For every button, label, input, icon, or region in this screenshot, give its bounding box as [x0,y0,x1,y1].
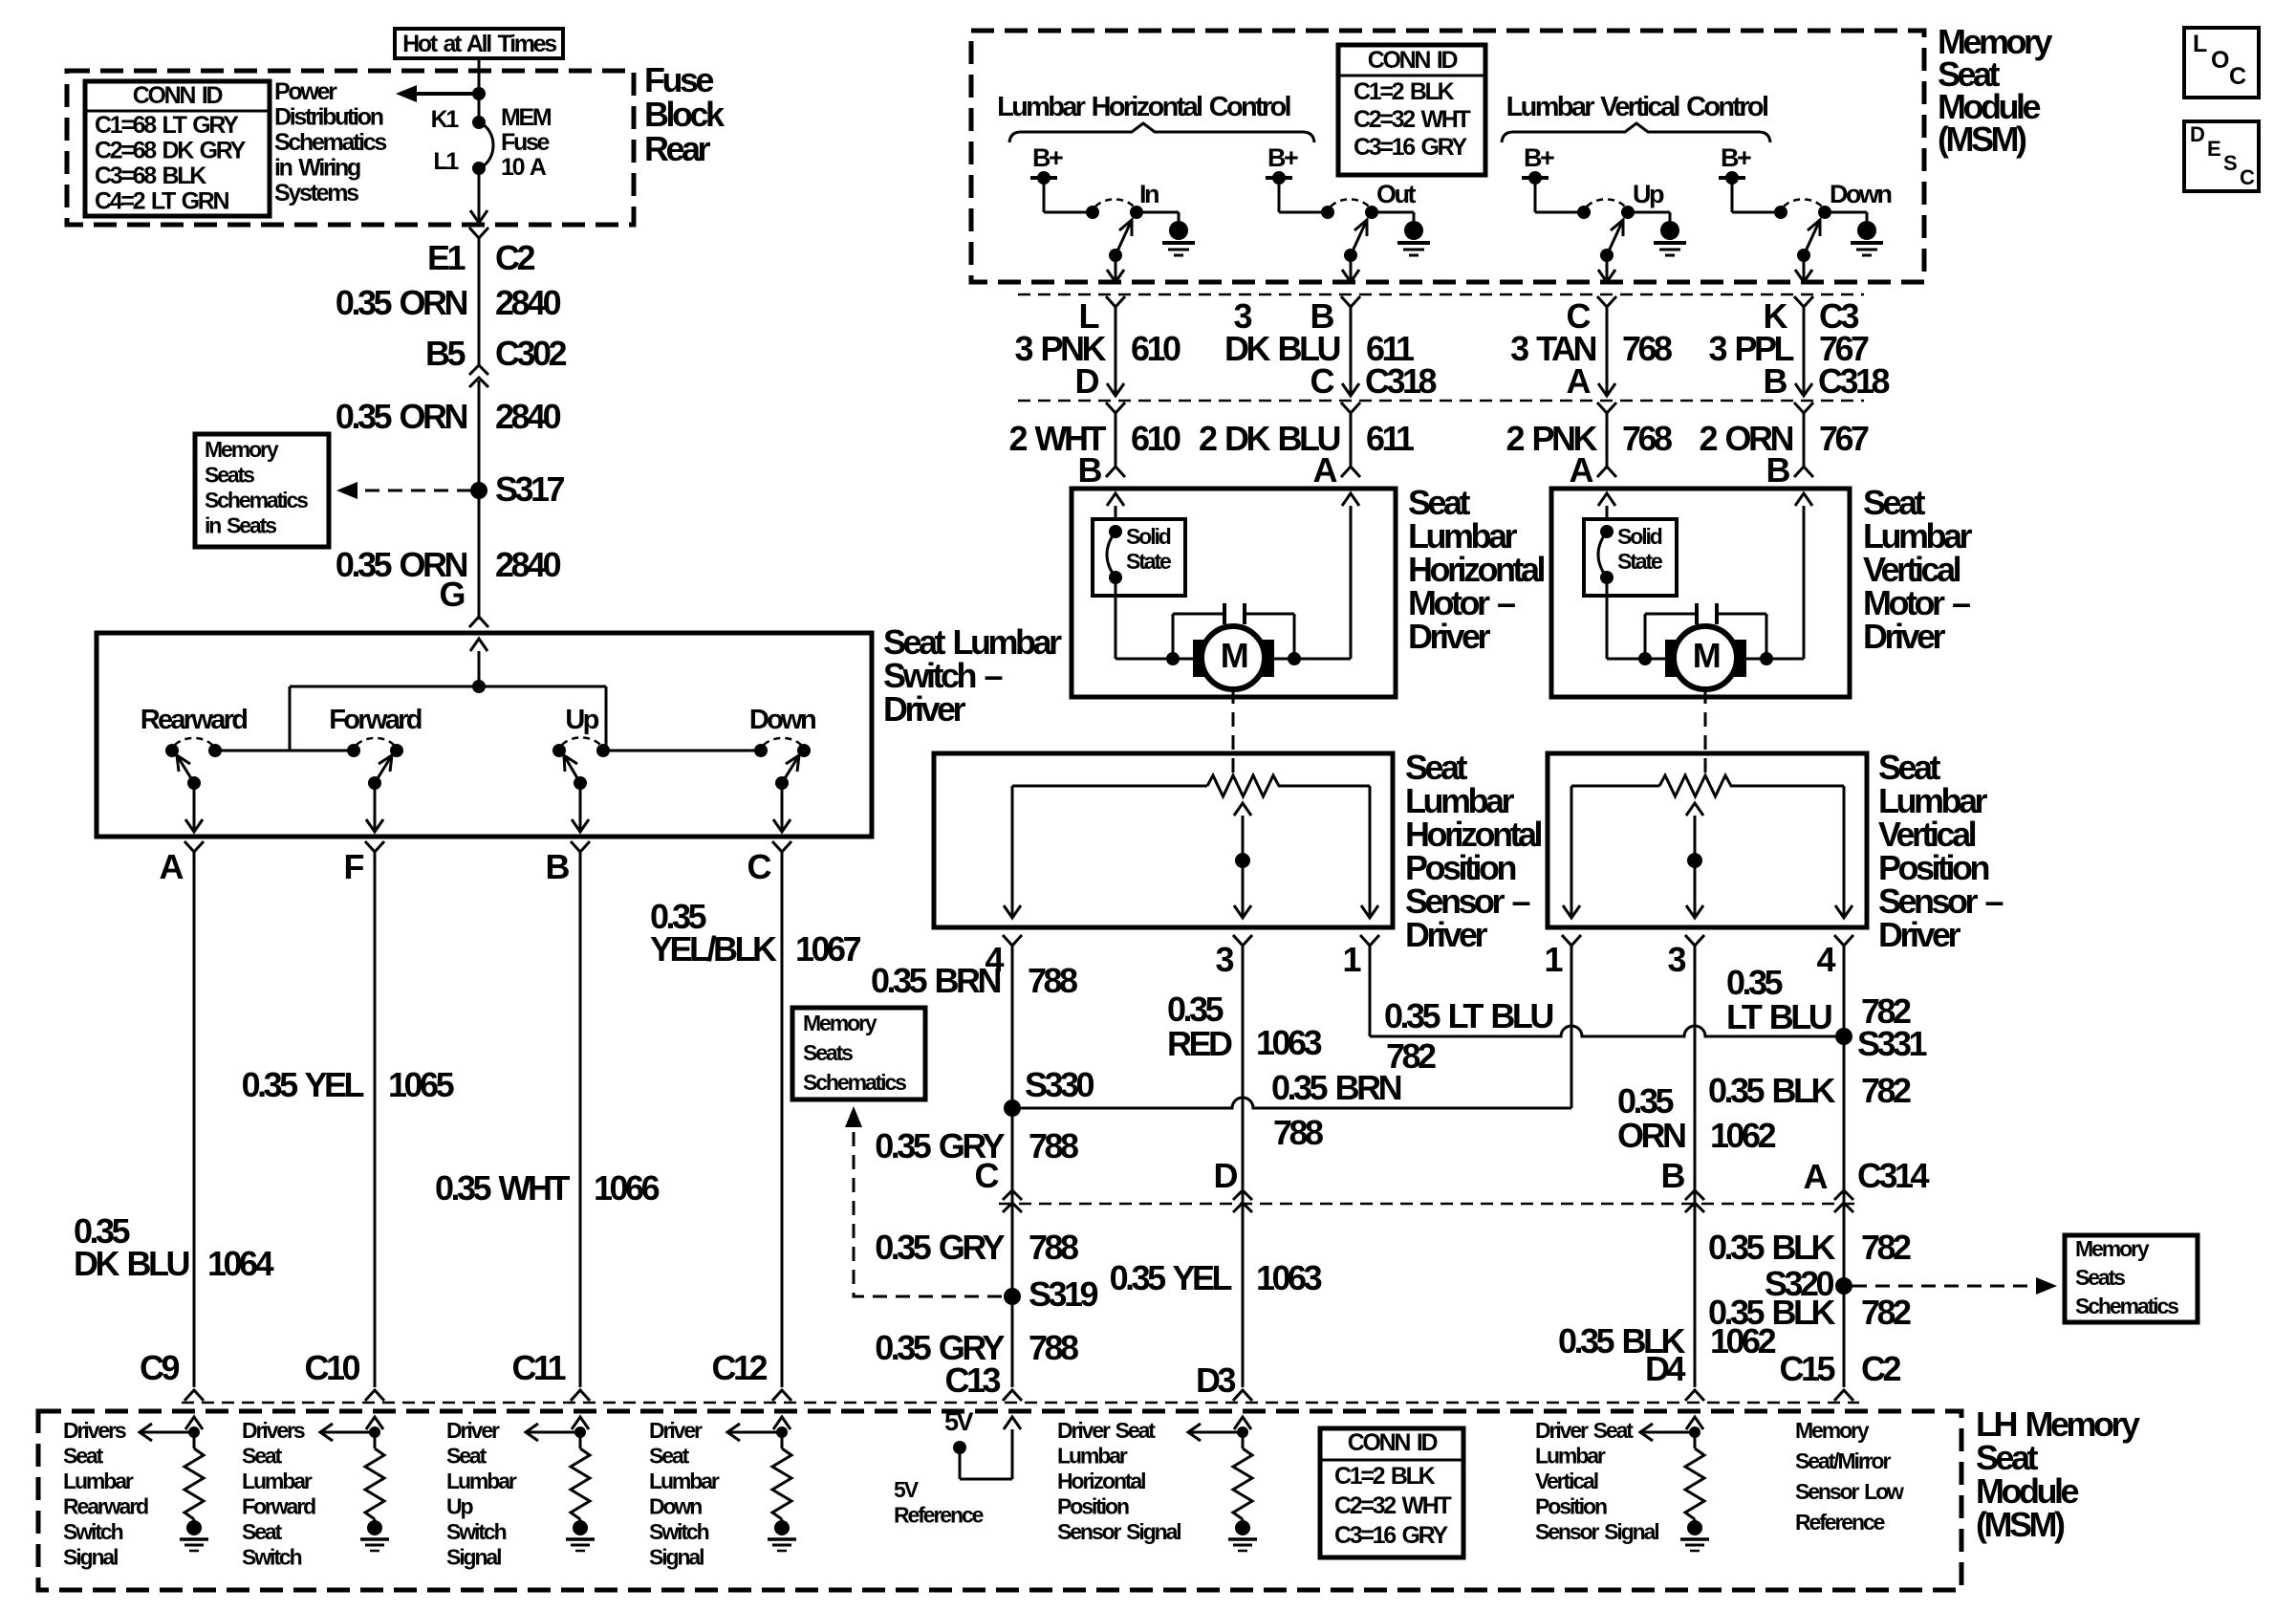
wire: rail to Up/Down contacts [603,750,761,752]
svg-text:Forward: Forward [242,1494,315,1519]
connector line C318 [1018,400,1864,403]
svg-text:C15: C15 [1779,1349,1835,1388]
svg-text:C3: C3 [1819,296,1858,336]
svg-text:F: F [344,847,364,886]
switch: Lumbar Down switch [1732,211,1781,214]
svg-text:5V: 5V [894,1477,920,1502]
splice S319 [1004,1288,1021,1305]
wire: C13 sensor supply (BRN/GRY 788) [1011,946,1014,1387]
svg-text:Sensor Signal: Sensor Signal [1535,1519,1658,1544]
svg-text:610: 610 [1131,329,1180,368]
splice S331 [1835,1028,1852,1045]
svg-text:B+: B+ [1721,143,1751,172]
wire segment 2 PNK 768 [1597,403,1616,413]
svg-text:CONN ID: CONN ID [1348,1429,1438,1456]
wire: arrow to Power Distribution Schematics [417,92,479,96]
svg-text:CONN ID: CONN ID [133,82,223,109]
connector pin F below switch box [365,841,384,852]
svg-text:S331: S331 [1857,1024,1928,1063]
svg-text:610: 610 [1131,419,1180,458]
svg-text:782: 782 [1861,1228,1911,1267]
svg-text:Seat: Seat [63,1444,104,1469]
svg-text:ORN: ORN [1617,1116,1685,1155]
wire: YEL/BLK 1067 [781,852,784,1387]
svg-text:Signal: Signal [649,1545,704,1570]
ground (Lumbar Up switch) [1628,211,1670,214]
wire: right feed [1795,493,1812,506]
svg-text:G: G [439,575,464,614]
svg-text:0.35 GRY: 0.35 GRY [875,1228,1005,1267]
svg-text:A: A [1313,450,1338,490]
svg-text:C1=2 BLK: C1=2 BLK [1334,1463,1436,1490]
sensor pin 4 [1834,935,1853,946]
svg-text:C: C [1310,361,1335,401]
motor M [1116,658,1351,661]
svg-text:DK BLU: DK BLU [74,1244,188,1283]
svg-text:0.35 YEL: 0.35 YEL [242,1065,364,1104]
svg-text:D: D [1075,361,1099,401]
svg-text:A: A [1804,1157,1829,1196]
svg-text:788: 788 [1273,1113,1323,1152]
svg-text:0.35: 0.35 [1167,990,1224,1029]
svg-text:Vertical: Vertical [1535,1469,1598,1493]
svg-text:C3=68 BLK: C3=68 BLK [95,163,206,189]
wire: left feed [1107,493,1124,506]
svg-text:0.35 WHT: 0.35 WHT [435,1168,571,1208]
node: switch feed junction [472,680,486,693]
svg-text:3: 3 [1215,940,1233,979]
connector pin C below switch box [772,841,791,852]
switch arm (Lumbar In switch) [1109,249,1122,262]
switch: Forward switch [347,744,360,757]
svg-text:10 A: 10 A [501,154,547,181]
svg-text:State: State [1617,549,1662,574]
connector pin B below switch box [571,841,590,852]
splice S317 [470,482,487,499]
box: Seat Lumbar Vertical Position Sensor - Driver [1548,753,1867,927]
dashed link motor to sensor [1704,689,1707,773]
svg-text:E: E [2207,137,2220,161]
wire segment 2 WHT 610 [1106,403,1125,413]
svg-text:768: 768 [1622,329,1672,368]
svg-text:B+: B+ [1524,143,1554,172]
signal input: arrow, resistor, ground [1234,1417,1251,1429]
box: Memory Seats Schematics (middle) [792,1008,925,1099]
signal input: arrow, resistor, ground [366,1417,383,1429]
svg-text:0.35 BRN: 0.35 BRN [871,961,1001,1000]
svg-text:Lumbar: Lumbar [649,1469,720,1493]
svg-text:Distribution: Distribution [274,104,383,131]
svg-text:B5: B5 [425,334,466,373]
box: Seat Lumbar Horizontal Motor - Driver [1072,489,1396,697]
svg-text:B: B [1766,450,1790,490]
svg-text:Schematics: Schematics [274,129,386,156]
wire: Lumbar In switch output [1115,255,1117,280]
svg-text:M: M [1693,636,1720,675]
svg-text:C13: C13 [944,1361,1000,1400]
sensor pin 4 [1003,935,1022,946]
fuse MEM 10A [472,116,486,129]
svg-text:A: A [1567,361,1592,401]
sensor pin 3 [1685,935,1704,946]
box: Seat Lumbar Switch - Driver [97,633,872,837]
svg-text:C314: C314 [1857,1156,1930,1195]
svg-text:0.35 BRN: 0.35 BRN [1271,1068,1401,1107]
sensor pin 1 [1360,935,1379,946]
svg-text:1063: 1063 [1256,1023,1322,1062]
capacitor [1223,603,1226,624]
switch: Lumbar Out switch [1279,211,1328,214]
svg-text:Position: Position [1057,1494,1129,1519]
svg-text:C9: C9 [140,1348,179,1387]
connector C314 pin D [1233,1190,1252,1200]
box: DESC [2184,121,2259,191]
svg-text:Down: Down [1830,180,1891,208]
signal input: arrow, resistor, ground [1686,1417,1703,1429]
svg-text:S: S [2223,151,2237,175]
wire: right feed [1342,493,1359,506]
svg-text:C: C [2240,165,2255,189]
wire from Hot at All Times down to fuse [478,58,481,122]
switch arm (Lumbar Down switch) [1797,249,1810,262]
svg-text:C2: C2 [495,238,534,277]
svg-text:B: B [1661,1156,1685,1195]
splice S330 [1004,1099,1021,1117]
svg-text:Out: Out [1376,180,1416,208]
svg-text:Lumbar Horizontal Control: Lumbar Horizontal Control [997,92,1289,122]
sensor pin 3 [1233,935,1252,946]
svg-text:Memory: Memory [205,437,279,462]
svg-text:Up: Up [446,1494,474,1519]
svg-text:Switch: Switch [242,1545,302,1570]
connector C314 pin B [1685,1190,1704,1200]
svg-text:1067: 1067 [795,929,861,969]
svg-text:E1: E1 [427,238,466,277]
svg-text:0.35 ORN: 0.35 ORN [336,397,467,436]
svg-text:Systems: Systems [274,180,358,207]
box: Memory Seat Module (MSM) [971,31,1924,282]
wire: DK BLU 1064 [193,852,196,1387]
wire: 0.35 WHT 1066 [579,852,582,1387]
svg-text:Sensor Signal: Sensor Signal [1057,1519,1180,1544]
connector line C9-C15 [182,1402,1859,1404]
svg-text:Seat: Seat [242,1444,283,1469]
svg-text:782: 782 [1861,1293,1911,1332]
svg-text:L: L [2193,31,2207,57]
svg-text:D4: D4 [1645,1349,1685,1388]
svg-text:D: D [2190,122,2204,146]
sensor pin 1 [1562,935,1581,946]
svg-text:Driver: Driver [1405,915,1488,954]
svg-text:Driver: Driver [1863,617,1946,656]
svg-text:Hot at All Times: Hot at All Times [402,31,556,57]
svg-text:B+: B+ [1267,143,1298,172]
connector line MSM C1/C2/C3 [1018,294,1864,296]
svg-text:Lumbar Vertical Control: Lumbar Vertical Control [1506,92,1767,122]
svg-text:C2=32 WHT: C2=32 WHT [1354,106,1471,133]
svg-text:Fuse: Fuse [644,60,714,99]
svg-text:1066: 1066 [594,1168,660,1208]
svg-text:Switch: Switch [649,1519,709,1544]
svg-text:Position: Position [1535,1494,1607,1519]
svg-text:Driver Seat: Driver Seat [1057,1418,1156,1443]
motor M [1607,658,1804,661]
wire segment 2 DK BLU 611 [1341,403,1360,413]
wire segment 3 PNK 610 [1106,296,1125,307]
svg-text:C1=2 BLK: C1=2 BLK [1354,78,1455,105]
svg-text:Rear: Rear [644,129,711,168]
svg-text:B: B [1764,361,1787,401]
svg-text:Seats: Seats [205,463,254,488]
wire segment 3 TAN 768 [1597,296,1616,307]
svg-text:L1: L1 [433,148,459,175]
svg-text:Memory: Memory [2075,1236,2150,1261]
svg-text:A: A [160,847,184,886]
svg-text:Driver: Driver [1878,915,1961,954]
svg-text:Drivers: Drivers [63,1418,126,1443]
svg-text:Signal: Signal [63,1545,118,1570]
svg-text:788: 788 [1029,1126,1078,1165]
svg-text:Seat/Mirror: Seat/Mirror [1795,1448,1891,1473]
wiper [1234,803,1251,816]
svg-text:0.35 ORN: 0.35 ORN [336,283,467,322]
svg-text:B+: B+ [1032,143,1063,172]
svg-text:K1: K1 [431,106,460,133]
signal input: arrow, resistor, ground [572,1417,589,1429]
svg-text:C1=68 LT GRY: C1=68 LT GRY [95,112,239,139]
svg-text:Memory: Memory [1795,1418,1870,1443]
svg-text:3: 3 [1233,296,1251,336]
svg-text:Driver: Driver [446,1418,500,1443]
svg-text:3: 3 [1667,940,1685,979]
svg-text:C318: C318 [1818,361,1890,401]
ground (Lumbar Out switch) [1372,211,1414,214]
svg-text:Signal: Signal [446,1545,501,1570]
svg-text:D: D [1214,1156,1238,1195]
connector line C314 [999,1203,1859,1206]
wiper [1686,803,1703,816]
box: Seat Lumbar Horizontal Position Sensor - Driver [934,753,1393,927]
svg-text:C10: C10 [304,1348,359,1387]
CONN ID table (fuse block) [85,81,270,216]
svg-text:A: A [1570,450,1594,490]
svg-text:Block: Block [644,95,726,134]
svg-text:D3: D3 [1196,1361,1235,1400]
svg-text:(MSM): (MSM) [1938,120,2026,159]
svg-text:C11: C11 [511,1348,566,1387]
dashed ref from S320 to Memory Seats Schematics [1852,1285,2046,1288]
wire: ORN 2840 segment 2 [478,381,481,620]
switch: Up switch [552,744,566,757]
wire: D3 sensor signal (RED/YEL 1063) [1242,946,1245,1387]
wire: LT BLU 782 from horizontal sensor pin 1 to S331 [1369,946,1372,1036]
signal input: arrow, resistor, ground [773,1417,791,1429]
svg-text:1064: 1064 [207,1244,274,1283]
svg-text:Lumbar: Lumbar [242,1469,313,1493]
svg-text:Seats: Seats [803,1040,853,1065]
ground (Lumbar Down switch) [1825,211,1867,214]
svg-text:Switch: Switch [446,1519,507,1544]
svg-text:Driver: Driver [649,1418,703,1443]
wire segment 3 PPL 767 [1794,296,1813,307]
svg-text:Solid: Solid [1126,524,1171,549]
svg-text:Schematics: Schematics [2075,1294,2178,1318]
CONN ID table (MSM top) [1338,45,1485,175]
svg-text:Seats: Seats [2075,1265,2125,1290]
svg-text:0.35 BLK: 0.35 BLK [1708,1228,1836,1267]
svg-text:Horizontal: Horizontal [1057,1469,1145,1493]
svg-text:2840: 2840 [495,545,561,584]
svg-text:Schematics: Schematics [205,488,308,512]
svg-text:C: C [2229,63,2246,90]
wire: Lumbar Out switch output [1350,255,1353,280]
svg-text:(MSM): (MSM) [1976,1505,2065,1544]
svg-text:C: C [975,1156,1000,1195]
svg-text:Switch: Switch [63,1519,123,1544]
svg-text:Up: Up [1633,180,1664,208]
wire segment 2 ORN 767 [1794,403,1813,413]
svg-text:C2=32 WHT: C2=32 WHT [1334,1492,1452,1519]
box: LOC [2184,28,2259,98]
svg-text:Driver: Driver [883,689,966,729]
solid state switch [1093,519,1185,596]
svg-text:C4=2 LT GRN: C4=2 LT GRN [95,188,229,215]
potentiometer [1012,785,1207,788]
box: Seat Lumbar Vertical Motor - Driver [1551,489,1850,697]
svg-text:Sensor Low: Sensor Low [1795,1479,1904,1504]
svg-text:in Wiring: in Wiring [274,155,360,182]
svg-text:Fuse: Fuse [501,129,551,156]
dashed ref from S319 to Memory Seats Schematics [854,1128,1002,1296]
svg-text:Memory: Memory [803,1011,877,1035]
svg-text:Rearward: Rearward [63,1494,148,1519]
Fuse Block Rear dashed box [67,71,634,225]
svg-text:5V: 5V [944,1407,974,1436]
svg-text:788: 788 [1029,1328,1078,1367]
svg-text:611: 611 [1366,419,1415,458]
svg-text:Seat: Seat [446,1444,487,1469]
wire: D4 sensor signal (ORN/BLK 1062) [1694,946,1697,1387]
svg-text:1065: 1065 [388,1065,455,1104]
svg-text:Lumbar: Lumbar [1057,1444,1128,1469]
wire: BRN 788 from vertical sensor pin 1 to S330 [1570,946,1573,1108]
box: Hot at All Times [395,29,563,58]
switch: Down switch [754,744,768,757]
svg-text:S330: S330 [1025,1065,1094,1104]
wire: fuse to fuse block edge [478,168,481,222]
wire: ORN 2840 segment 1 [478,238,481,367]
svg-text:Lumbar: Lumbar [446,1469,517,1493]
box: Memory Seats Schematics (right) [2065,1235,2198,1322]
svg-text:Power: Power [274,78,337,105]
capacitor [1695,603,1699,624]
solid state switch [1584,519,1677,596]
svg-text:in Seats: in Seats [205,513,276,538]
wire: Lumbar Up switch output [1606,255,1609,280]
connector C314 pin C [1003,1190,1022,1200]
svg-text:1062: 1062 [1710,1116,1776,1155]
svg-text:Reference: Reference [894,1503,984,1528]
svg-text:2840: 2840 [495,397,561,436]
CONN ID table (MSM bottom) [1320,1428,1463,1557]
box: LH Memory Seat Module (MSM) [38,1411,1961,1590]
svg-text:Lumbar: Lumbar [63,1469,134,1493]
svg-text:Seat: Seat [649,1444,690,1469]
svg-text:0.35 BLK: 0.35 BLK [1708,1071,1836,1110]
wire: feed rail [290,686,606,688]
svg-text:0.35: 0.35 [1617,1081,1675,1121]
svg-text:Drivers: Drivers [242,1418,305,1443]
svg-text:LT BLU: LT BLU [1726,997,1831,1036]
svg-text:C2: C2 [1861,1349,1900,1388]
ground (Lumbar In switch) [1137,211,1179,214]
svg-text:C3=16 GRY: C3=16 GRY [1354,134,1467,161]
svg-text:S317: S317 [495,469,565,509]
svg-text:Reference: Reference [1795,1510,1885,1535]
svg-text:M: M [1221,636,1247,675]
svg-text:788: 788 [1028,961,1077,1000]
svg-text:C2=68 DK GRY: C2=68 DK GRY [95,138,247,164]
svg-text:1063: 1063 [1256,1258,1322,1297]
svg-text:Up: Up [565,705,598,735]
wire segment DK BLU 611 [1341,296,1360,307]
svg-text:Forward: Forward [329,705,421,735]
connector pin A below switch box [184,841,204,852]
node: power distribution tap [472,87,486,100]
switch: Rearward switch [165,744,179,757]
signal input: arrow, resistor, ground [185,1417,203,1429]
switch arm (Lumbar Out switch) [1344,249,1357,262]
connector leaving fuse block (E1/C2) [469,228,488,238]
svg-text:768: 768 [1622,419,1672,458]
svg-text:2840: 2840 [495,283,561,322]
svg-text:Down: Down [649,1494,702,1519]
svg-text:Down: Down [749,705,815,735]
svg-text:C3=16 GRY: C3=16 GRY [1334,1522,1448,1549]
svg-text:O: O [2211,47,2229,74]
svg-text:CONN ID: CONN ID [1368,47,1458,74]
svg-text:Seat: Seat [242,1519,283,1544]
svg-text:YEL/BLK: YEL/BLK [650,929,777,969]
switch arm (Lumbar Up switch) [1600,249,1614,262]
svg-text:0.35 BLK: 0.35 BLK [1708,1293,1836,1332]
svg-text:Rearward: Rearward [141,705,248,735]
wire: Lumbar Down switch output [1803,255,1806,280]
svg-text:Solid: Solid [1617,524,1662,549]
svg-text:Schematics: Schematics [803,1070,906,1095]
box: Memory Seats Schematics in Seats [195,434,329,547]
potentiometer [1571,785,1659,788]
svg-text:S319: S319 [1029,1274,1098,1314]
svg-text:C12: C12 [711,1348,767,1387]
splice S320 [1835,1277,1852,1295]
svg-text:C318: C318 [1365,361,1437,401]
svg-text:Driver Seat: Driver Seat [1535,1418,1634,1443]
svg-text:B: B [546,847,570,886]
svg-text:782: 782 [1861,1071,1911,1110]
dashed link motor to sensor [1232,689,1235,773]
svg-text:Driver: Driver [1408,617,1491,656]
dashed ref arrow to Memory Seats Schematics in Seats [344,490,471,492]
wire: rail to Rearward/Forward contacts [215,750,354,752]
svg-text:RED: RED [1167,1024,1232,1063]
wire: 0.35 YEL 1065 [374,852,377,1387]
connector C314 pin A [1834,1190,1853,1200]
svg-text:B: B [1078,450,1102,490]
switch: Lumbar In switch [1044,211,1093,214]
switch: Lumbar Up switch [1535,211,1584,214]
svg-text:0.35: 0.35 [1726,963,1784,1002]
